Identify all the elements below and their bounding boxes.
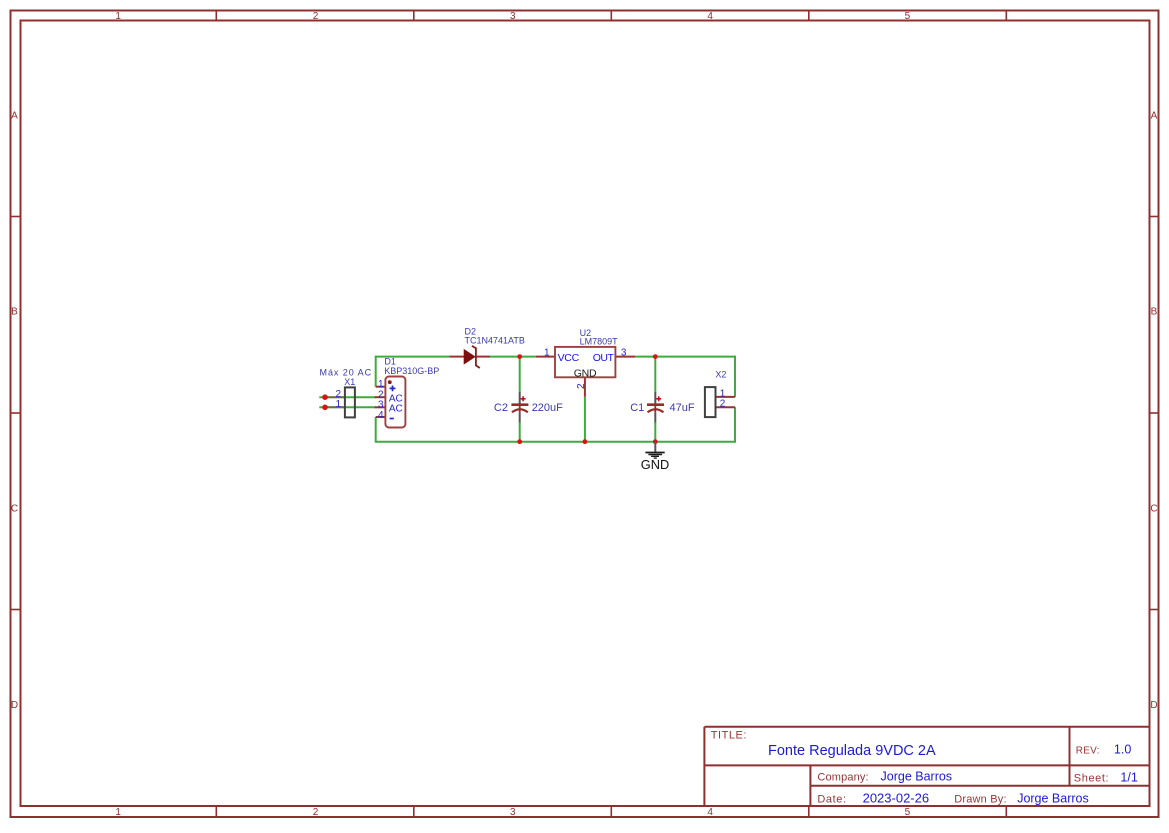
C2 center tick bbox=[519, 404, 521, 413]
D1 pin 1 stub bbox=[376, 386, 386, 388]
C1 top lead bbox=[654, 392, 656, 404]
wire bottom rail bbox=[376, 441, 735, 443]
ground symbol bbox=[641, 442, 669, 472]
frame row ticks right bbox=[1150, 217, 1159, 610]
wire U2 pin2 vertical bbox=[584, 397, 586, 442]
title block company divider bbox=[809, 765, 811, 806]
X2 body bbox=[705, 387, 716, 417]
svg-text:2: 2 bbox=[720, 399, 726, 410]
wire C2 vertical bottom bbox=[519, 423, 521, 442]
frame row letters right bbox=[1150, 110, 1157, 711]
D1 pin name - bbox=[390, 418, 394, 420]
frame row letters left bbox=[11, 110, 18, 711]
svg-text:1.0: 1.0 bbox=[1114, 742, 1131, 756]
wire right vertical lower bbox=[734, 407, 736, 443]
D1 pin 2 stub bbox=[375, 396, 386, 398]
D1 polarity dot bbox=[388, 380, 392, 384]
svg-text:Fonte Regulada 9VDC 2A: Fonte Regulada 9VDC 2A bbox=[768, 743, 936, 759]
title block row line 2 bbox=[810, 785, 1149, 787]
svg-text:Jorge Barros: Jorge Barros bbox=[881, 770, 953, 784]
svg-text:2023-02-26: 2023-02-26 bbox=[863, 791, 930, 806]
title block row line 1 bbox=[704, 764, 1149, 766]
wire X1 pin2 to D1 bbox=[319, 396, 375, 398]
C1 plus sign bbox=[656, 396, 661, 401]
X1 body bbox=[345, 387, 355, 417]
svg-text:TC1N4741ATB: TC1N4741ATB bbox=[465, 336, 525, 346]
X1 pin 1 stub bbox=[327, 406, 344, 408]
U2 pin 1 stub bbox=[536, 356, 555, 358]
junction node D2/C2/U2 bbox=[517, 354, 522, 359]
D1 pin 3 stub bbox=[375, 406, 386, 408]
connector X1 bbox=[320, 368, 373, 418]
D1 pin 4 stub bbox=[376, 416, 386, 418]
U2 pin 2 stub bbox=[584, 377, 586, 396]
wire bottom left vertical bbox=[375, 417, 377, 443]
svg-text:1: 1 bbox=[115, 11, 121, 22]
svg-text:5: 5 bbox=[905, 11, 911, 22]
svg-text:C: C bbox=[11, 503, 18, 514]
svg-text:3: 3 bbox=[510, 807, 516, 818]
C2 bottom plate arc bbox=[512, 409, 528, 412]
svg-text:TITLE:: TITLE: bbox=[711, 729, 747, 741]
svg-text:Drawn By:: Drawn By: bbox=[954, 794, 1007, 806]
svg-text:C2: C2 bbox=[494, 402, 508, 414]
svg-text:C1: C1 bbox=[630, 402, 644, 414]
C1 bottom lead bbox=[654, 413, 656, 423]
svg-text:3: 3 bbox=[510, 11, 516, 22]
svg-text:A: A bbox=[1151, 110, 1158, 121]
C2 bottom lead bbox=[519, 413, 521, 423]
svg-text:B: B bbox=[11, 307, 18, 318]
title block top line bbox=[704, 726, 1149, 728]
svg-text:4: 4 bbox=[378, 410, 384, 421]
frame column ticks top bbox=[216, 11, 1006, 21]
connector X2 bbox=[705, 369, 735, 417]
bridge rectifier D1 bbox=[375, 357, 440, 428]
X1 open end dot pin2 bbox=[322, 394, 328, 400]
svg-text:GND: GND bbox=[641, 457, 669, 472]
svg-text:A: A bbox=[11, 110, 18, 121]
svg-text:1: 1 bbox=[335, 399, 341, 410]
X1 pin 2 stub bbox=[327, 396, 344, 398]
ground bar 1 bbox=[645, 452, 664, 454]
svg-text:B: B bbox=[1151, 307, 1158, 318]
wire C1 vertical top bbox=[654, 357, 656, 393]
junction node U2/C1/X2 bbox=[653, 354, 658, 359]
wire right vertical upper bbox=[734, 356, 736, 397]
svg-text:Date:: Date: bbox=[817, 794, 846, 806]
svg-text:Company:: Company: bbox=[817, 772, 868, 784]
wire top rail right segment bbox=[635, 356, 735, 358]
svg-text:REV:: REV: bbox=[1076, 745, 1100, 756]
capacitor C2 bbox=[494, 392, 563, 423]
ground bar 4 bbox=[654, 457, 657, 459]
frame column numbers bottom bbox=[115, 807, 910, 818]
svg-text:47uF: 47uF bbox=[670, 402, 695, 414]
svg-text:2: 2 bbox=[313, 11, 319, 22]
svg-text:AC: AC bbox=[389, 404, 403, 415]
wire top rail left segment bbox=[376, 357, 450, 387]
C1 bottom plate arc bbox=[648, 409, 664, 412]
svg-text:GND: GND bbox=[574, 367, 597, 379]
wire C2 vertical top bbox=[519, 357, 521, 393]
wire C1 vertical bottom bbox=[654, 423, 656, 442]
regulator U2 bbox=[536, 328, 636, 397]
C1 center tick bbox=[654, 404, 656, 413]
frame column ticks bottom bbox=[216, 806, 1006, 817]
C2 top lead bbox=[519, 392, 521, 404]
svg-text:5: 5 bbox=[905, 807, 911, 818]
D2 triangle bbox=[464, 350, 475, 364]
frame row ticks left bbox=[11, 217, 21, 610]
junction node U2 pin2/bottom rail bbox=[583, 439, 588, 444]
wire X1 pin1 to D1 bbox=[319, 406, 375, 408]
zener diode D2 bbox=[449, 327, 524, 368]
D2 zener bar bbox=[472, 346, 480, 368]
junction node C2/bottom rail bbox=[517, 439, 522, 444]
title block left line bbox=[703, 727, 705, 806]
svg-text:C: C bbox=[1150, 503, 1157, 514]
D1 pin name + bbox=[390, 386, 396, 392]
svg-text:D: D bbox=[1150, 700, 1157, 711]
C1 top plate bbox=[647, 403, 664, 406]
junction node C1/GND/bottom rail bbox=[653, 439, 658, 444]
wire top rail mid segment bbox=[490, 356, 536, 358]
title block rev divider bbox=[1069, 727, 1071, 786]
D2 cathode stub bbox=[476, 356, 490, 358]
ground stem bbox=[654, 442, 656, 452]
svg-text:1: 1 bbox=[115, 807, 121, 818]
C2 top plate bbox=[511, 403, 528, 406]
D2 anode stub bbox=[449, 356, 464, 358]
frame column numbers top bbox=[115, 11, 910, 22]
svg-text:VCC: VCC bbox=[558, 352, 580, 364]
C2 plus sign bbox=[521, 396, 526, 401]
U2 body bbox=[555, 347, 615, 377]
svg-text:220uF: 220uF bbox=[532, 402, 563, 414]
svg-text:2: 2 bbox=[576, 383, 587, 389]
U2 pin 3 stub bbox=[615, 356, 635, 358]
ground bar 3 bbox=[651, 455, 659, 457]
svg-text:Jorge Barros: Jorge Barros bbox=[1017, 792, 1089, 806]
svg-text:LM7809T: LM7809T bbox=[580, 336, 619, 346]
svg-text:Máx 20 AC: Máx 20 AC bbox=[320, 368, 373, 378]
capacitor C1 bbox=[630, 392, 695, 423]
X1 open end dot pin1 bbox=[322, 405, 328, 411]
svg-text:1: 1 bbox=[544, 347, 550, 358]
svg-text:OUT: OUT bbox=[593, 352, 615, 364]
svg-text:4: 4 bbox=[707, 11, 713, 22]
svg-text:D: D bbox=[11, 700, 18, 711]
svg-text:X1: X1 bbox=[344, 377, 355, 387]
svg-text:Sheet:: Sheet: bbox=[1074, 772, 1109, 784]
svg-text:1/1: 1/1 bbox=[1120, 770, 1137, 784]
D1 body bbox=[385, 377, 405, 428]
svg-text:3: 3 bbox=[621, 347, 627, 358]
svg-text:KBP310G-BP: KBP310G-BP bbox=[384, 366, 439, 376]
X2 pin 2 stub bbox=[716, 406, 736, 408]
ground bar 2 bbox=[648, 454, 662, 456]
X2 pin 1 stub bbox=[716, 396, 736, 398]
svg-text:4: 4 bbox=[707, 807, 713, 818]
svg-text:X2: X2 bbox=[715, 369, 726, 379]
svg-text:2: 2 bbox=[313, 807, 319, 818]
